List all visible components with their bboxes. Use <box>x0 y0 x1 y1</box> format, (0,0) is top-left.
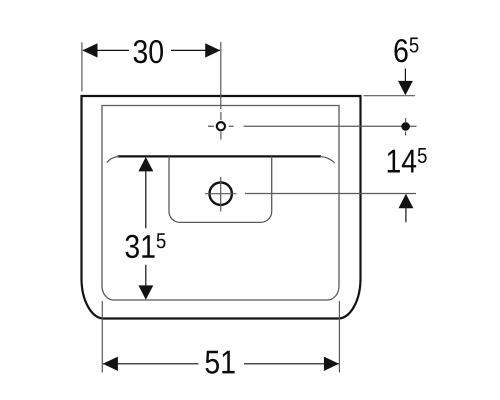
dim 6.5: tail line <box>404 69 406 83</box>
faucet hole crosshair vertical dashes <box>220 112 222 140</box>
dim 30: left extension line <box>81 42 83 91</box>
inner rim line <box>102 106 339 301</box>
dim 30: centerline down to faucet hole <box>220 42 222 109</box>
drain hole <box>210 183 232 205</box>
drain crosshair vertical <box>220 177 222 212</box>
dim 51: left extension line <box>101 301 103 373</box>
dim 14.5: tail line below arrow <box>405 208 407 222</box>
dim 31.5: up arrowhead at shelf <box>138 157 153 171</box>
shelf right hook <box>320 157 335 164</box>
dim 31.5: upper line segment <box>145 171 147 228</box>
dim 30: left arrowhead <box>82 43 97 57</box>
faucet hole <box>217 122 225 130</box>
dim 14.5: dot tick below <box>405 132 407 136</box>
dim 30: label <box>134 40 163 63</box>
shelf left hook <box>107 157 119 163</box>
dim 6.5: label <box>395 38 419 63</box>
faucet hole leader line to right <box>244 125 417 127</box>
dim 6.5: down arrowhead <box>398 81 413 95</box>
dim 51: label <box>206 351 235 374</box>
dim 30: dimension line left segment <box>83 49 129 51</box>
dim 14.5: up arrowhead <box>399 194 414 208</box>
dim 31.5: down arrowhead at basin bottom <box>138 285 153 299</box>
top edge extension line to right <box>364 95 416 97</box>
dim 14.5: dot tick above <box>405 118 407 122</box>
basin back edge (shelf line) <box>118 155 322 157</box>
dim 51: dimension line left segment <box>103 363 198 365</box>
dim 30: right arrowhead <box>205 43 220 57</box>
drain leader line to right <box>245 193 416 195</box>
dim 31.5: lower line segment <box>145 265 147 286</box>
dim 31.5: label <box>126 233 166 258</box>
drain crosshair horizontal <box>205 193 237 195</box>
dim 14.5: label <box>388 148 427 173</box>
dim 51: left arrowhead <box>103 357 118 371</box>
dim 51: dimension line right segment <box>244 363 339 365</box>
dim 51: right arrowhead <box>324 357 339 371</box>
dim 14.5: reference dot on faucet line <box>401 122 410 131</box>
faucet hole crosshair horizontal dashes <box>208 125 234 127</box>
dim 51: right extension line <box>338 301 340 373</box>
basin pocket outline <box>169 156 272 222</box>
washbasin outer outline <box>82 96 361 319</box>
dim 30: dimension line right segment <box>171 49 220 51</box>
